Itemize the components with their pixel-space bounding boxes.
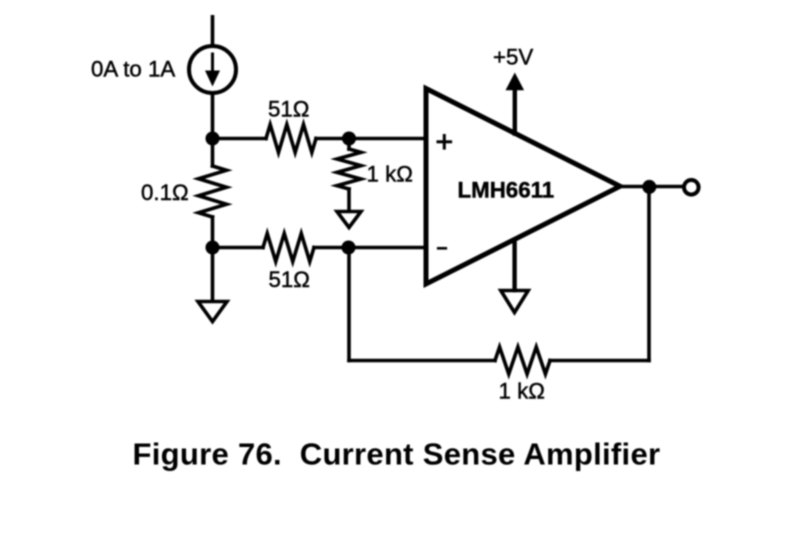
- wire node A to resistor R1: [211, 139, 215, 167]
- node B junction dot: [206, 241, 220, 255]
- resistor R3 1 kohm to ground: [337, 149, 361, 189]
- wire feedback bottom right segment: [550, 359, 649, 363]
- svg-text:+5V: +5V: [493, 44, 533, 69]
- negative supply lead: [512, 240, 516, 290]
- wire node B to resistor R4: [213, 246, 264, 250]
- supply arrow +5V: [506, 73, 525, 134]
- op-amp U1 LMH6611 triangle: [426, 89, 620, 285]
- wire node C to resistor R3: [347, 139, 351, 150]
- wire top lead into current source: [211, 17, 215, 46]
- node E output junction dot: [642, 180, 656, 194]
- svg-text:0.1Ω: 0.1Ω: [141, 180, 189, 205]
- svg-text:Figure 76. Current Sense Ampl: Figure 76. Current Sense Amplifier: [133, 437, 661, 472]
- svg-text:1 kΩ: 1 kΩ: [499, 378, 545, 403]
- op-amp plus input marker: [438, 136, 451, 149]
- output terminal open circle: [684, 180, 699, 195]
- node A junction dot: [206, 132, 220, 146]
- wire feedback right vertical: [647, 187, 651, 361]
- resistor R2 51 ohm top: [266, 125, 316, 153]
- wire R1 to node B: [211, 217, 215, 248]
- resistor R4 51 ohm bottom: [263, 234, 314, 262]
- wire node A to resistor R2: [213, 137, 267, 141]
- wire R2 to op-amp plus input: [316, 137, 424, 141]
- svg-text:0A to 1A: 0A to 1A: [91, 56, 175, 81]
- ground G3 under op-amp: [501, 291, 528, 313]
- wire R3 to ground: [347, 189, 351, 211]
- wire feedback bottom left segment: [349, 359, 495, 363]
- svg-text:51Ω: 51Ω: [269, 267, 310, 292]
- svg-text:LMH6611: LMH6611: [458, 177, 555, 202]
- node D junction dot: [342, 241, 356, 255]
- resistor R1 0.1 ohm: [199, 166, 227, 217]
- svg-text:1 kΩ: 1 kΩ: [367, 162, 413, 187]
- ground G1: [198, 302, 227, 322]
- wire feedback left vertical up to node D: [347, 248, 351, 361]
- ground G2: [337, 212, 361, 228]
- wire node B down to ground: [211, 248, 215, 302]
- node C junction dot: [342, 132, 356, 146]
- wire R4 to op-amp minus input: [314, 246, 424, 250]
- resistor R5 1 kohm feedback: [495, 347, 550, 374]
- current source I1: [189, 46, 236, 93]
- op-amp minus input marker: [438, 247, 446, 250]
- svg-text:51Ω: 51Ω: [268, 96, 309, 121]
- wire current source to node A: [211, 93, 215, 139]
- wire op-amp output: [620, 185, 682, 189]
